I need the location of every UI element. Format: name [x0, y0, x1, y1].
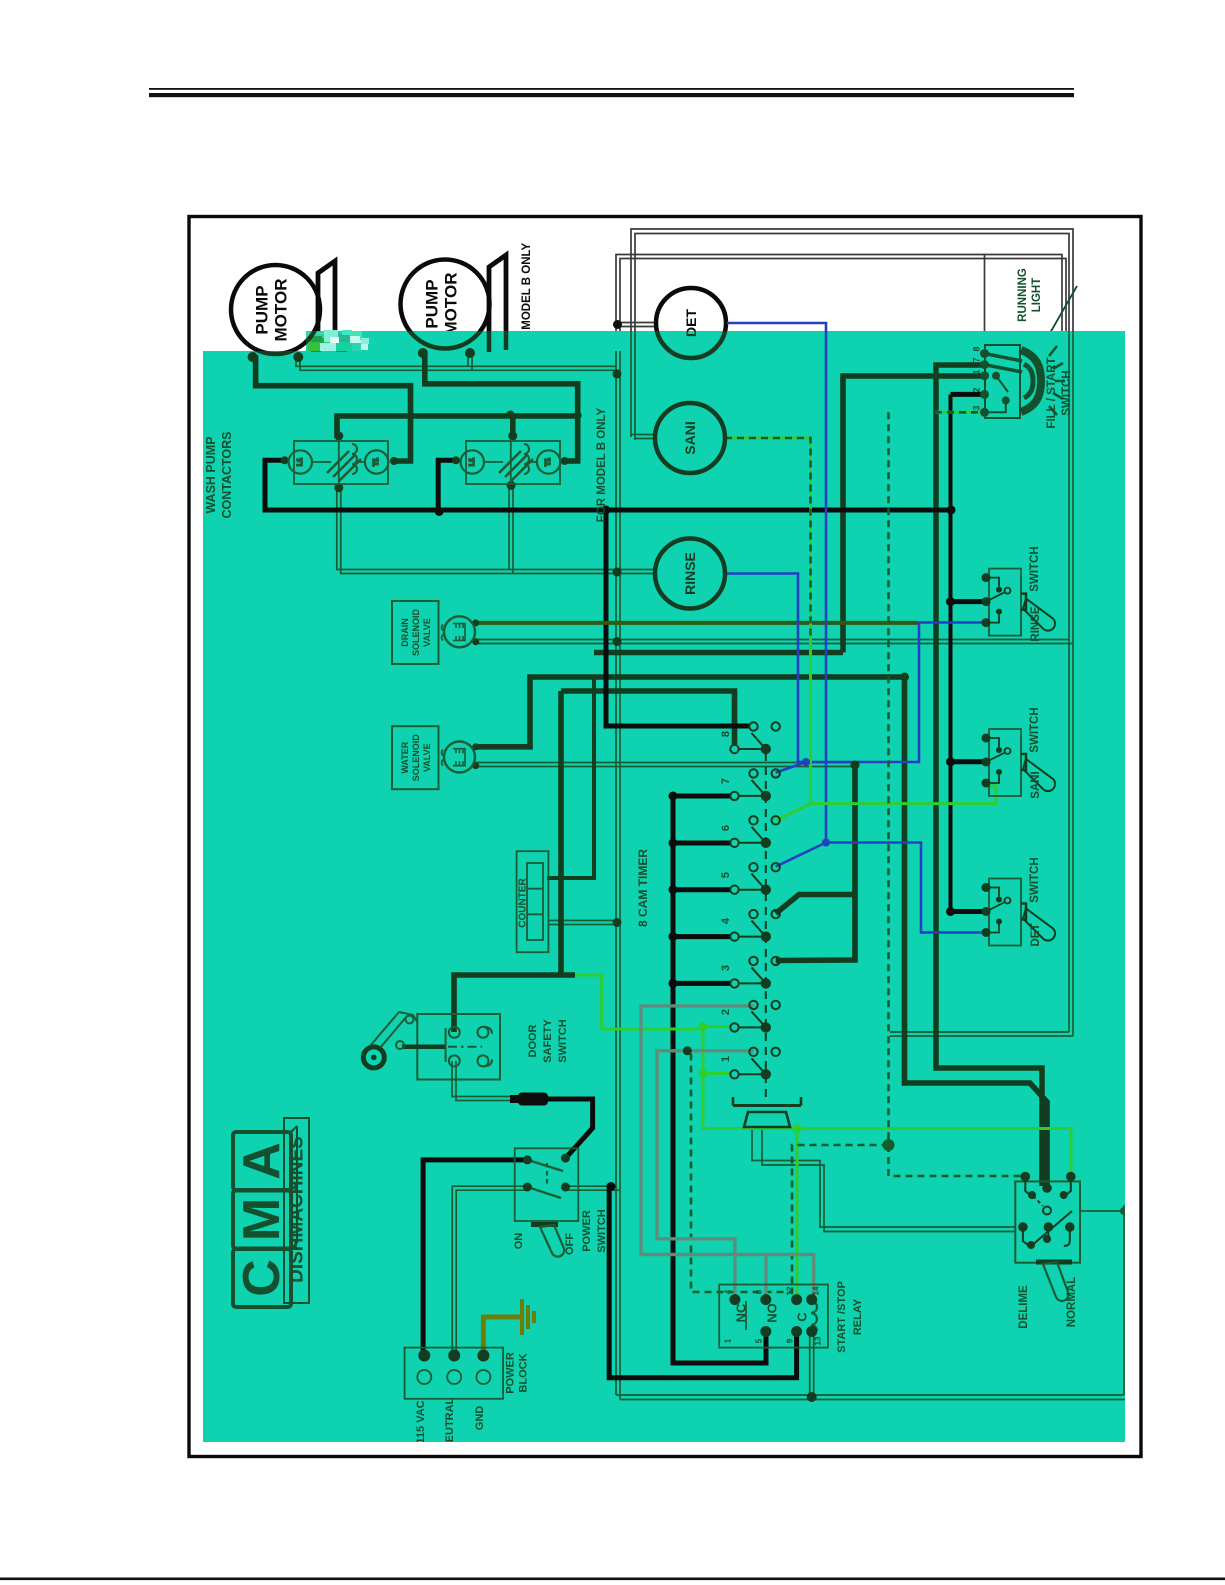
svg-text:WATER: WATER [400, 741, 410, 773]
svg-text:BLOCK: BLOCK [518, 1353, 530, 1392]
svg-text:NEUTRAL: NEUTRAL [444, 1397, 456, 1450]
svg-text:ON: ON [513, 1233, 525, 1250]
svg-text:6: 6 [720, 825, 732, 831]
svg-text:OFF: OFF [564, 1233, 576, 1255]
svg-text:SWITCH: SWITCH [1029, 707, 1041, 752]
svg-text:DISHMACHINES: DISHMACHINES [287, 1136, 308, 1283]
svg-text:2: 2 [972, 387, 982, 392]
svg-text:SWITCH: SWITCH [596, 1209, 608, 1252]
svg-text:RELAY: RELAY [852, 1298, 864, 1335]
svg-text:12: 12 [786, 1286, 795, 1295]
svg-text:VALVE: VALVE [422, 743, 432, 772]
svg-text:C: C [233, 1259, 291, 1297]
svg-text:VALVE: VALVE [422, 618, 432, 647]
svg-text:13: 13 [814, 1336, 823, 1345]
svg-text:8: 8 [972, 346, 982, 351]
svg-text:SWITCH: SWITCH [1029, 857, 1041, 902]
svg-text:NC: NC [734, 1303, 749, 1322]
svg-text:7: 7 [972, 357, 982, 362]
svg-text:L1: L1 [297, 458, 304, 466]
svg-text:DET: DET [1030, 924, 1042, 947]
svg-text:SWITCH: SWITCH [1061, 370, 1073, 415]
svg-text:8: 8 [755, 1289, 764, 1294]
svg-text:115 VAC: 115 VAC [415, 1400, 427, 1443]
svg-text:FOR MODEL B ONLY: FOR MODEL B ONLY [596, 407, 608, 522]
svg-text:M: M [233, 1198, 291, 1241]
svg-text:CONTACTORS: CONTACTORS [220, 431, 234, 518]
svg-text:POWER: POWER [505, 1352, 517, 1394]
svg-text:RUNNING: RUNNING [1017, 268, 1029, 322]
svg-text:3: 3 [972, 405, 982, 410]
svg-text:SWITCH: SWITCH [1029, 546, 1041, 591]
svg-text:2: 2 [720, 1009, 732, 1015]
svg-text:DRAIN: DRAIN [400, 618, 410, 647]
svg-text:1: 1 [972, 369, 982, 374]
svg-text:1: 1 [720, 1056, 732, 1062]
svg-text:NO: NO [765, 1303, 780, 1323]
svg-text:7: 7 [720, 778, 732, 784]
svg-text:SWITCH: SWITCH [557, 1019, 569, 1062]
svg-text:DOOR: DOOR [527, 1024, 539, 1057]
svg-text:3: 3 [720, 965, 732, 971]
svg-text:GND: GND [474, 1406, 486, 1431]
svg-text:C: C [795, 1312, 810, 1322]
svg-text:4: 4 [724, 1289, 733, 1294]
svg-text:START /STOP: START /STOP [836, 1281, 848, 1353]
svg-text:SANI: SANI [1030, 771, 1042, 798]
svg-text:8 CAM TIMER: 8 CAM TIMER [636, 849, 650, 927]
svg-text:COUNTER: COUNTER [518, 878, 529, 928]
svg-text:5: 5 [755, 1338, 764, 1343]
svg-text:PUMP: PUMP [423, 279, 442, 328]
svg-text:14: 14 [812, 1286, 821, 1295]
svg-text:T1: T1 [373, 458, 380, 466]
svg-text:DELIME: DELIME [1018, 1285, 1030, 1329]
svg-text:A: A [233, 1142, 291, 1180]
svg-text:9: 9 [786, 1338, 795, 1343]
svg-text:PUMP: PUMP [253, 285, 272, 334]
svg-text:NORMAL: NORMAL [1066, 1277, 1078, 1327]
svg-text:RINSE: RINSE [682, 552, 698, 595]
svg-text:SANI: SANI [682, 421, 698, 454]
svg-text:LIGHT: LIGHT [1031, 278, 1043, 313]
svg-text:SAFETY: SAFETY [542, 1019, 554, 1063]
svg-text:SOLENOID: SOLENOID [411, 734, 421, 782]
svg-text:MOTOR: MOTOR [272, 279, 291, 342]
svg-text:POWER: POWER [581, 1210, 593, 1252]
svg-text:4: 4 [720, 917, 732, 924]
svg-text:5: 5 [720, 872, 732, 878]
svg-text:8: 8 [720, 731, 732, 737]
svg-text:SOLENOID: SOLENOID [411, 609, 421, 657]
svg-text:MOTOR: MOTOR [442, 273, 461, 336]
svg-text:WASH PUMP: WASH PUMP [204, 436, 218, 513]
svg-text:FILL / START: FILL / START [1046, 357, 1058, 428]
svg-text:RINSE: RINSE [1030, 606, 1042, 641]
svg-text:1: 1 [724, 1338, 733, 1343]
